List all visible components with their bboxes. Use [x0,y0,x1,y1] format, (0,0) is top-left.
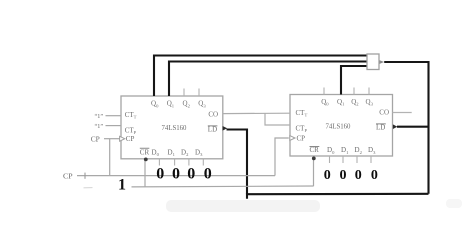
svg-text:CP: CP [91,135,100,144]
svg-text:CR: CR [310,146,320,154]
svg-text:1: 1 [118,177,126,194]
svg-text:CP: CP [126,135,135,143]
svg-text:LD: LD [208,126,217,134]
wire U2.CR drop to logic-1 rail [313,156,315,186]
stray scan dash under CP terminal [84,187,93,189]
wire U1.Q0 to gate input 1 [154,56,367,97]
wire U1.CO to U2.CT_T [223,112,290,114]
wire CP bottom rail [77,175,275,177]
svg-text:0: 0 [172,166,180,183]
U1 label CR overline [140,147,150,149]
U1 CT_T lead from "1" [106,115,122,117]
U2 pin stub D3 bottom [370,156,372,163]
svg-text:CO: CO [208,111,218,119]
U1 pin stub D2 bottom [188,159,190,166]
U2 CO stub [393,112,412,114]
wire CP vertical branch at x110 [109,139,111,176]
svg-text:0: 0 [204,166,212,183]
svg-text:0: 0 [156,166,164,183]
wire U1.Q1 to gate input 2 [169,62,367,97]
nand gate G1 body [367,54,379,70]
U1 CP lead [104,138,120,140]
counter U2 74LS160 body [290,95,393,157]
U1 pin stub D1 bottom [174,159,176,166]
svg-text:0: 0 [187,166,195,183]
U2 pin stub Q0 top [323,88,325,95]
U1 pin stub Q3 top [198,89,200,97]
wire gate output to right vertical [384,62,428,194]
U1 LD input wedge [223,126,228,131]
U2 pin stub D2 bottom [356,156,358,163]
U1 pin stub D3 bottom [202,159,204,166]
junction dot U1 CR [144,158,148,162]
U1 CP clock wedge [120,136,125,141]
svg-text:CR: CR [140,148,150,156]
logic-1 rail [132,185,314,188]
svg-text:“1”: “1” [95,123,104,130]
wire branch to U2 LD [397,126,429,128]
U2 pin stub Q3 top [368,88,370,95]
gate G1 output polarity wedge [380,60,385,64]
U1 label LD overline [208,125,218,127]
U2 label LD overline [376,123,386,125]
wire CO branch to U2.CT_P [265,113,290,125]
wire CP rail up to U2 CP [275,138,289,176]
U2 pin stub Q2 top [353,88,355,95]
svg-text:CO: CO [379,109,389,117]
svg-text:CP: CP [63,172,73,181]
U1 CT_P lead from "1" [106,125,122,127]
svg-text:CP: CP [297,135,306,143]
U2 pin stub D0 bottom [329,156,331,163]
svg-text:LD: LD [376,123,385,131]
svg-text:0: 0 [355,168,362,183]
U2 LD input wedge [393,124,398,129]
faint watermark smudge bottom center [166,200,320,212]
svg-text:74LS160: 74LS160 [162,125,188,132]
svg-text:0: 0 [340,168,347,183]
counter U1 74LS160 body [121,96,223,159]
wire U1.CR drop to logic-1 rail [144,159,146,187]
junction dot U2 CR [312,157,316,161]
faint smudge bottom right [446,199,462,208]
CP terminal tick [84,173,86,179]
U2 CP clock wedge [290,136,295,141]
wire U2.Q1 to gate input 3 [341,66,367,95]
U1 pin stub Q2 top [183,89,185,97]
svg-text:0: 0 [324,168,331,183]
wire up to U1 LD [227,130,248,195]
svg-text:0: 0 [371,168,378,183]
U1 pin stub D0 bottom [158,159,160,166]
U2 label CR overline [310,146,320,148]
svg-text:“1”: “1” [95,113,104,120]
U2 pin stub D1 bottom [342,156,344,163]
wire bottom feedback run [247,194,429,199]
svg-text:74LS160: 74LS160 [326,124,352,131]
